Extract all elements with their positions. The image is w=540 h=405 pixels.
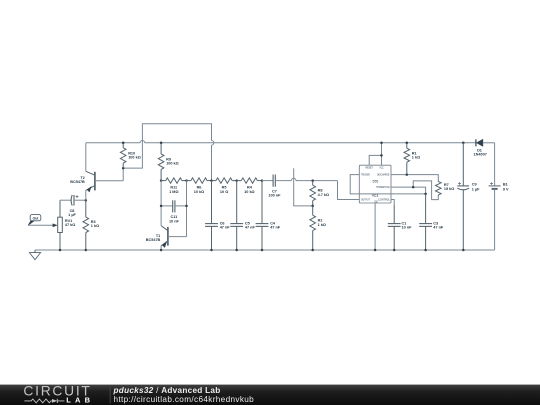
node Out flag <box>30 215 41 221</box>
resistor R2 1k <box>312 206 314 215</box>
svg-text:555: 555 <box>373 180 379 184</box>
svg-text:OUTPUT: OUTPUT <box>361 198 370 201</box>
diode D1 1N4007 <box>475 139 477 146</box>
capacitor C7 100nF <box>262 180 273 182</box>
svg-text:1N4007: 1N4007 <box>474 153 487 157</box>
wire top supply rail <box>86 142 476 144</box>
svg-text:100 kΩ: 100 kΩ <box>128 155 141 159</box>
wire C7 to 555 OUTPUT with hop, R8 top tap <box>275 180 291 182</box>
junction R9 bottom / R11 left <box>160 179 163 182</box>
wire THRESHOLD pin <box>391 187 426 194</box>
capacitor C6 47nF <box>211 181 213 224</box>
junction R11 right / R6 left <box>185 179 188 182</box>
svg-text:RESET: RESET <box>366 167 374 170</box>
svg-text:10 nF: 10 nF <box>169 219 180 223</box>
svg-text:pducks32 / Advanced Lab: pducks32 / Advanced Lab <box>113 386 221 395</box>
junction R8 top <box>311 179 314 182</box>
junction C8/T2 emitter/R3 <box>85 199 88 202</box>
capacitor C3 47nF <box>425 194 427 224</box>
resistor R10 100k <box>122 143 124 148</box>
junction reset/vcc tee <box>380 154 383 157</box>
resistor R9 100k <box>160 143 162 154</box>
wire CONTROL pin down <box>391 200 394 206</box>
wire hop on top rail over detour wire <box>140 142 145 144</box>
wire C8 left to RV1 top <box>60 199 71 201</box>
wire VCC pin to top rail <box>381 143 383 165</box>
wire R7 bottom staircase to THRESHOLD <box>413 181 438 200</box>
resistor R11 1M <box>161 180 166 182</box>
resistor R1 1k <box>406 143 408 148</box>
resistor R5 10ohm <box>212 180 217 182</box>
svg-text:1 µF: 1 µF <box>68 213 76 217</box>
svg-text:DISCHARGE: DISCHARGE <box>377 174 390 177</box>
svg-text:THRESHOLD: THRESHOLD <box>376 186 390 189</box>
svg-text:15 kΩ: 15 kΩ <box>444 187 454 191</box>
junction threshold/staircase <box>412 186 415 189</box>
wire arrow from Out flag to RV1 wiper <box>28 224 53 226</box>
svg-text:1 kΩ: 1 kΩ <box>91 224 99 228</box>
wire R11 left node down to C11/T1 collector <box>160 181 162 226</box>
svg-text:10 kΩ: 10 kΩ <box>194 190 204 194</box>
junction R3 bottom <box>85 249 88 252</box>
junction R8 bottom / R2 top <box>311 205 314 208</box>
wire DISCHARGE to R1 bottom and R7 top <box>391 175 438 181</box>
wire RESET pin tee <box>369 155 381 165</box>
junction R5/R4/C5 <box>235 179 238 182</box>
capacitor C4 47nF <box>261 181 263 224</box>
junction C11 right <box>185 205 188 208</box>
wire GND pin to rail <box>374 203 376 250</box>
junction trigger/threshold <box>424 193 427 196</box>
svg-text:BC547B: BC547B <box>70 180 85 184</box>
svg-text:100 kΩ: 100 kΩ <box>166 162 179 166</box>
resistor R6 10k <box>187 180 191 182</box>
svg-text:9 V: 9 V <box>503 187 509 191</box>
svg-text:47 kΩ: 47 kΩ <box>65 223 75 227</box>
svg-text:1 MΩ: 1 MΩ <box>169 190 178 194</box>
wire R6 left node down to C11 right/T1 base <box>186 181 188 237</box>
svg-text:LAB: LAB <box>66 395 94 404</box>
junction R4/C7/C4 <box>261 179 264 182</box>
footer bar <box>0 385 540 405</box>
potentiometer RV1 <box>59 200 61 217</box>
svg-text:100 nF: 100 nF <box>268 194 281 198</box>
capacitor C1 10nF <box>393 205 395 224</box>
wire detour loop from node at R10 bottom to R6/R5 junction <box>123 124 211 168</box>
svg-text:CONTROL: CONTROL <box>378 198 391 201</box>
junction C9 top <box>462 142 465 145</box>
junction vcc rail <box>380 142 383 145</box>
wire TRIGGER loop under IC to threshold node <box>350 175 425 194</box>
svg-text:47 nF: 47 nF <box>433 226 444 230</box>
junction R1 bottom <box>406 173 409 176</box>
svg-text:TRIGGER: TRIGGER <box>361 174 370 177</box>
svg-text:1 kΩ: 1 kΩ <box>318 223 326 227</box>
transistor T1 BC547B <box>161 226 167 231</box>
svg-text:10 Ω: 10 Ω <box>220 190 228 194</box>
capacitor C11 10nF <box>161 205 173 207</box>
junction C11 left <box>160 205 163 208</box>
svg-text:VCC: VCC <box>379 167 383 170</box>
ground <box>34 250 36 253</box>
svg-text:C9: C9 <box>472 183 477 187</box>
svg-text:10 kΩ: 10 kΩ <box>244 190 254 194</box>
junction R9 top <box>160 142 163 145</box>
resistor R4 10k <box>237 180 242 182</box>
svg-text:47 nF: 47 nF <box>270 226 281 230</box>
wire stub through hop down to R8 bottom <box>294 168 313 206</box>
wire T2 base up to R10 bottom <box>122 168 124 181</box>
capacitor C9 1uF polarized <box>462 143 464 186</box>
svg-text:http://circuitlab.com/c64krhed: http://circuitlab.com/c64krhednvkub <box>114 395 255 404</box>
svg-text:47 nF: 47 nF <box>245 226 256 230</box>
resistor R3 1k <box>85 200 87 217</box>
svg-text:1 µF: 1 µF <box>472 187 480 191</box>
junction R6/R5/C6/detour 4-way <box>210 179 213 182</box>
svg-text:B1: B1 <box>503 183 508 187</box>
resistor R7 15k <box>437 180 439 183</box>
junction R10 top <box>122 142 125 145</box>
junction T1 emitter at rail <box>160 249 163 252</box>
svg-text:10 nF: 10 nF <box>402 226 413 230</box>
svg-text:4.7 kΩ: 4.7 kΩ <box>318 193 330 197</box>
capacitor C5 47nF <box>236 181 238 224</box>
svg-text:Out: Out <box>33 216 40 220</box>
svg-text:1 kΩ: 1 kΩ <box>412 156 420 160</box>
battery B1 9V <box>494 143 496 186</box>
junction R10 bottom <box>122 167 125 170</box>
capacitor C8 1uF polarized <box>71 195 72 206</box>
svg-text:BC547B: BC547B <box>146 238 161 242</box>
junction RV1 bottom <box>59 249 62 252</box>
wire bottom ground rail <box>35 249 495 251</box>
op-amp/timer IC1 555 box <box>359 165 391 203</box>
transistor T2 BC547B <box>85 143 87 172</box>
svg-text:47 nF: 47 nF <box>220 226 231 230</box>
resistor R8 4.7k <box>312 181 314 186</box>
